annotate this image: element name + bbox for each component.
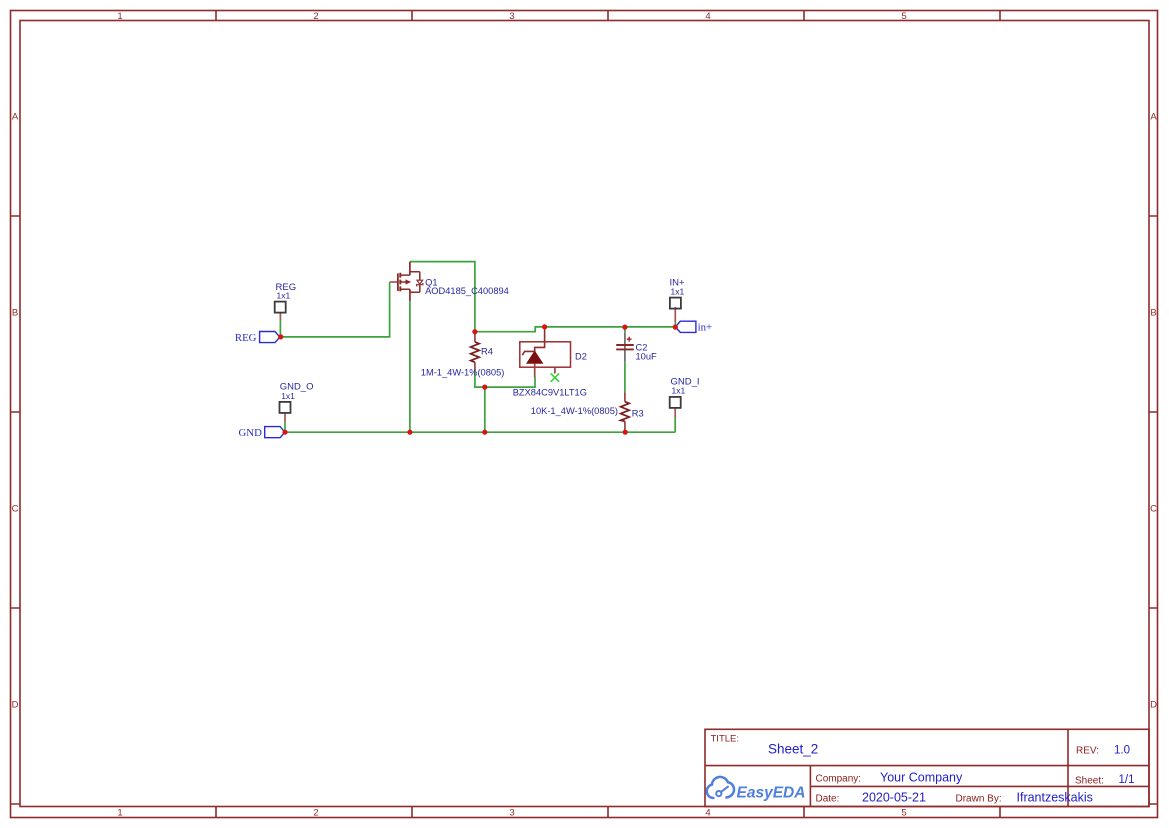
- junction node branch GND: [482, 430, 487, 435]
- svg-text:EasyEDA: EasyEDA: [737, 785, 806, 802]
- svg-text:10uF: 10uF: [636, 351, 658, 361]
- svg-text:REG: REG: [235, 332, 257, 344]
- wire IN+ pin stub: [674, 322, 676, 327]
- svg-text:Date:: Date:: [816, 794, 840, 805]
- wire branch down to GND rail: [484, 387, 486, 432]
- connector IN+ 1x1: [670, 278, 686, 322]
- row labels left: [12, 112, 19, 711]
- column labels top: [117, 11, 906, 22]
- net flag GND: [239, 427, 285, 439]
- svg-text:2: 2: [313, 808, 318, 819]
- resistor R4: [421, 332, 505, 377]
- svg-text:4: 4: [705, 808, 710, 819]
- svg-text:1x1: 1x1: [277, 291, 291, 301]
- junction node R3 GND: [623, 430, 628, 435]
- svg-text:1x1: 1x1: [672, 386, 686, 396]
- junction node in+: [673, 325, 678, 330]
- no-connect X on D2 pin: [551, 373, 559, 381]
- svg-text:C: C: [12, 504, 19, 515]
- transistor Q1: [390, 262, 509, 302]
- wire C2 to R3: [624, 362, 626, 393]
- wire drain to GND rail: [409, 301, 411, 432]
- svg-text:3: 3: [509, 808, 514, 819]
- title block: [705, 729, 1149, 806]
- diode D2 (zener): [513, 327, 587, 397]
- wire C2 top stub: [624, 327, 626, 333]
- svg-text:5: 5: [901, 11, 906, 22]
- junction node D2 cathode: [542, 324, 547, 329]
- svg-text:BZX84C9V1LT1G: BZX84C9V1LT1G: [513, 387, 587, 397]
- svg-text:B: B: [12, 308, 18, 319]
- svg-text:C: C: [1150, 504, 1157, 515]
- svg-text:D: D: [12, 700, 19, 711]
- connector GND_I 1x1: [670, 377, 700, 418]
- svg-text:in+: in+: [698, 321, 713, 333]
- svg-text:D: D: [1150, 700, 1157, 711]
- connector GND_O 1x1: [280, 382, 314, 423]
- resistor R3: [531, 392, 644, 431]
- svg-text:3: 3: [509, 11, 514, 22]
- svg-text:B: B: [1150, 308, 1156, 319]
- svg-text:R4: R4: [481, 346, 493, 356]
- svg-text:AOD4185_C400894: AOD4185_C400894: [425, 286, 509, 296]
- svg-text:2020-05-21: 2020-05-21: [862, 791, 926, 805]
- svg-text:Sheet:: Sheet:: [1075, 776, 1104, 787]
- wire GND_I stub: [674, 418, 676, 433]
- svg-text:1M-1_4W-1%(0805): 1M-1_4W-1%(0805): [421, 367, 505, 377]
- connector REG 1x1: [275, 282, 296, 320]
- svg-text:Your Company: Your Company: [880, 771, 963, 785]
- net flag REG: [235, 332, 280, 344]
- svg-text:A: A: [12, 112, 19, 123]
- column labels bottom: [117, 808, 906, 819]
- svg-text:Drawn By:: Drawn By:: [956, 794, 1002, 805]
- svg-text:1: 1: [117, 11, 122, 22]
- wire source top rail: [410, 262, 475, 332]
- row labels right: [1150, 112, 1157, 711]
- svg-text:A: A: [1150, 112, 1157, 123]
- svg-text:1.0: 1.0: [1114, 745, 1130, 757]
- svg-text:Company:: Company:: [816, 774, 862, 785]
- wire REG pin stub: [279, 320, 281, 337]
- svg-text:GND: GND: [239, 427, 263, 439]
- junction node R4 top: [472, 329, 477, 334]
- junction node drain GND: [407, 430, 412, 435]
- svg-text:TITLE:: TITLE:: [711, 734, 740, 745]
- svg-text:R3: R3: [632, 408, 644, 418]
- wire R4 bottom to D2 anode: [475, 371, 535, 388]
- wire GND_O pin stub: [284, 422, 286, 432]
- svg-text:D2: D2: [575, 352, 587, 362]
- svg-text:1x1: 1x1: [281, 391, 295, 401]
- wire main node to in+: [475, 327, 675, 332]
- junction node REG: [278, 334, 283, 339]
- svg-text:4: 4: [705, 11, 710, 22]
- svg-text:2: 2: [313, 11, 318, 22]
- svg-text:REV:: REV:: [1076, 746, 1099, 757]
- svg-text:Ifrantzeskakis: Ifrantzeskakis: [1017, 791, 1093, 805]
- svg-text:1/1: 1/1: [1119, 774, 1135, 786]
- capacitor C2: [616, 333, 657, 362]
- svg-text:10K-1_4W-1%(0805): 10K-1_4W-1%(0805): [531, 406, 618, 416]
- wire REG to gate: [281, 282, 390, 337]
- wire GND rail: [285, 431, 675, 433]
- svg-text:1x1: 1x1: [671, 287, 685, 297]
- svg-text:1: 1: [117, 808, 122, 819]
- net flag in+: [675, 321, 712, 333]
- svg-text:Sheet_2: Sheet_2: [768, 742, 818, 757]
- junction node C2 top: [622, 325, 627, 330]
- EasyEDA logo: [707, 777, 806, 802]
- junction node GND flag: [282, 430, 287, 435]
- junction node R4 bottom: [482, 385, 487, 390]
- svg-text:5: 5: [901, 808, 906, 819]
